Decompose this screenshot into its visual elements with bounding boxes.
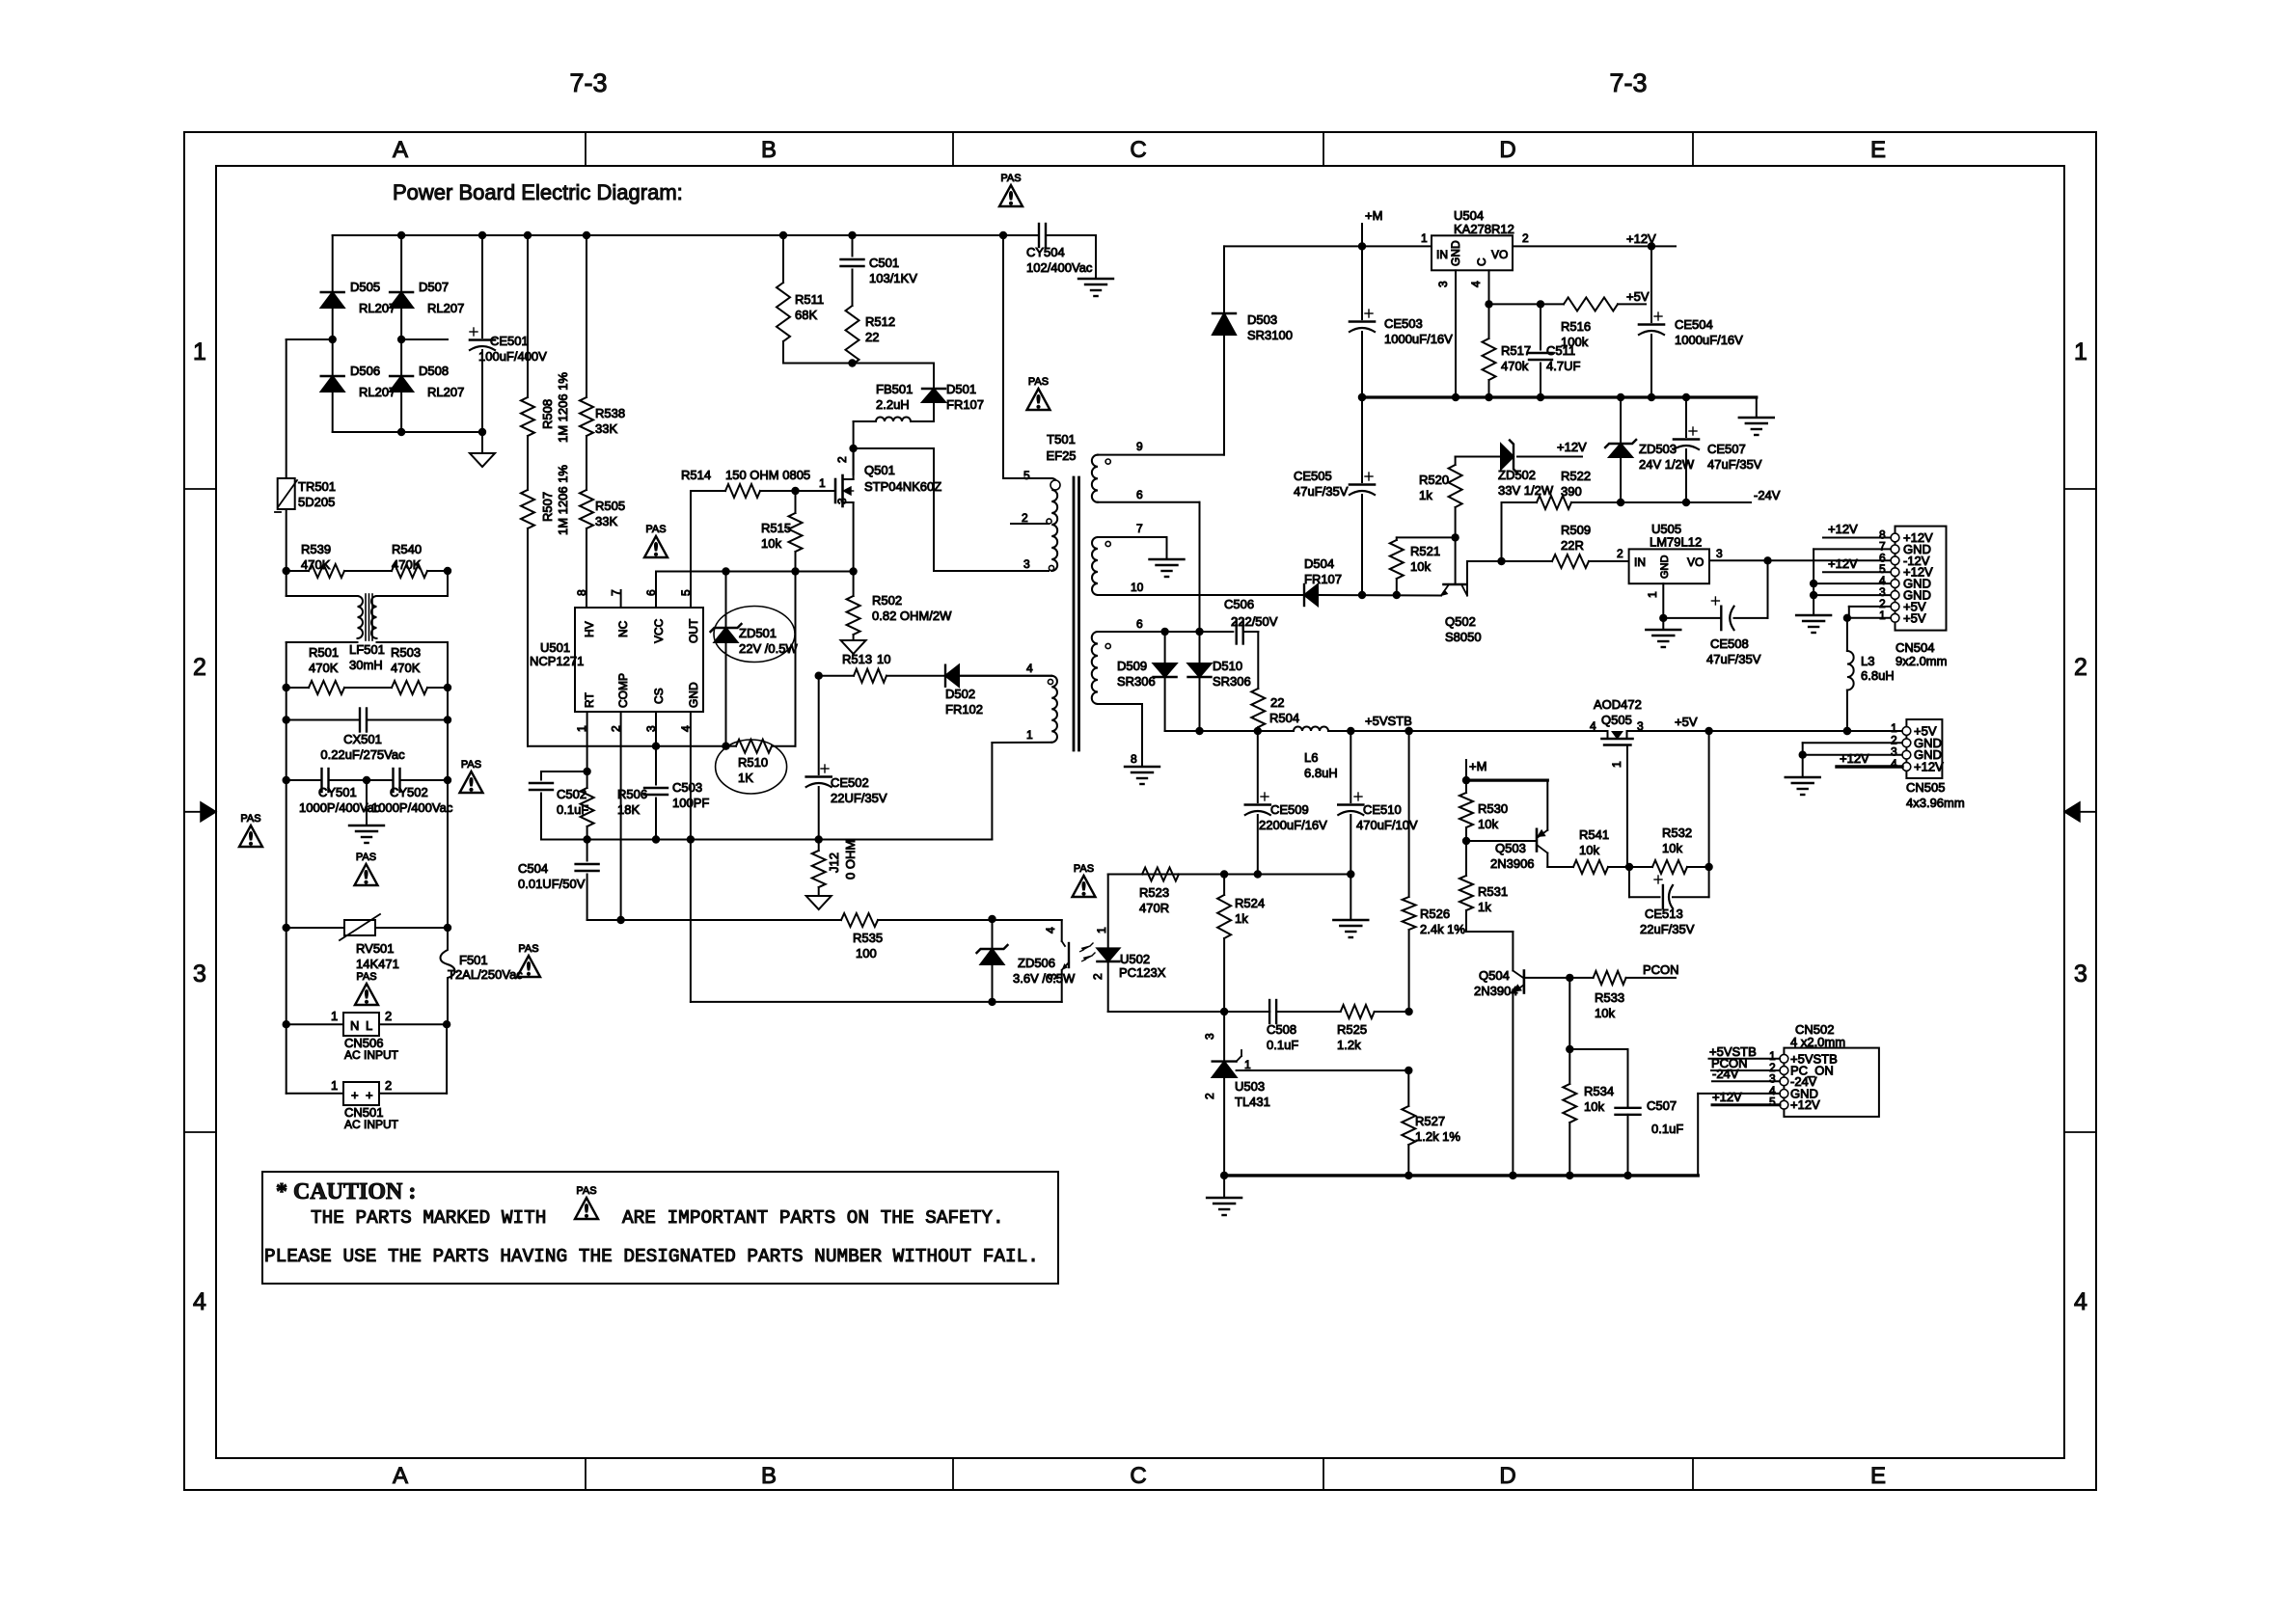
svg-text:3: 3 [1716,547,1723,560]
border frame inner [216,166,2064,1458]
PAS mark right of CX area [460,759,483,793]
transformer T501 secondary 6-8 [1092,617,1165,784]
svg-text:R524: R524 [1235,896,1265,910]
svg-text:0 OHM: 0 OHM [843,840,858,880]
svg-text:47uF/35V: 47uF/35V [1294,484,1349,499]
svg-text:47uF/35V: 47uF/35V [1706,652,1761,666]
svg-text:1: 1 [1421,231,1428,245]
resistor R532 [1629,731,1713,874]
svg-text:C: C [1475,257,1488,266]
regulator U504 KA278R12 [1421,208,1529,397]
svg-text:1: 1 [819,476,826,490]
label Q505 [1601,713,1632,727]
svg-text:SR3100: SR3100 [1247,328,1293,342]
svg-text:NCP1271: NCP1271 [530,654,584,668]
capacitor CE507 [1674,393,1762,506]
svg-text:100uF/400V: 100uF/400V [478,349,547,364]
svg-text:10k: 10k [761,536,781,551]
shunt reference U503 TL431 [1203,1012,1413,1176]
net +M at R530 [1466,759,1486,780]
svg-text:NC: NC [616,620,630,637]
svg-text:+12V: +12V [1557,440,1587,454]
svg-text:2: 2 [1522,231,1529,245]
svg-text:ARE IMPORTANT PARTS ON THE SAF: ARE IMPORTANT PARTS ON THE SAFETY. [622,1207,1004,1229]
svg-text:PAS: PAS [645,524,666,535]
svg-text:R522: R522 [1561,469,1591,483]
transistor Q504 2N3904 [1474,968,1524,1176]
svg-text:R520: R520 [1419,473,1449,487]
svg-text:4.7UF: 4.7UF [1546,359,1580,373]
svg-text:Power Board Electric Diagram:: Power Board Electric Diagram: [393,180,683,204]
svg-text:A: A [393,1463,408,1489]
resistor R502 [847,572,952,641]
svg-text:1M 1206 1%: 1M 1206 1% [556,465,570,535]
svg-text:OUT: OUT [687,618,700,643]
wire -24V net [1621,488,1781,502]
svg-text:103/1KV: 103/1KV [869,271,917,285]
svg-text:VCC: VCC [652,618,666,643]
svg-text:+12V: +12V [1828,522,1858,536]
resistor R534 [1563,1049,1614,1176]
wire bridge bottom bus [333,428,486,436]
svg-text:D507: D507 [419,280,449,294]
optocoupler U502 PC123X [1044,875,1166,1013]
svg-text:GND: GND [687,682,700,708]
connector CN502 [1769,1022,1879,1117]
svg-text:R521: R521 [1410,544,1440,558]
svg-text:R513: R513 [842,652,872,666]
svg-text:ZD502: ZD502 [1498,468,1536,482]
svg-text:3: 3 [1203,1033,1216,1040]
svg-text:D509: D509 [1117,659,1147,673]
svg-text:4: 4 [1026,662,1033,675]
capacitor CE509 [1245,731,1327,875]
svg-text:D: D [1499,1463,1515,1489]
svg-text:D508: D508 [419,364,449,378]
frame left arrow marker [184,802,216,822]
wire GND pin4 [690,712,692,840]
svg-text:R506: R506 [617,787,647,801]
diode D507 [390,235,464,339]
svg-text:6: 6 [1136,488,1143,501]
resistor R540 [392,542,451,578]
resistor R504 [1251,689,1299,731]
svg-text:D510: D510 [1213,659,1242,673]
svg-text:CN504: CN504 [1896,640,1934,655]
svg-text:4 x2.0mm: 4 x2.0mm [1790,1035,1845,1049]
connector CN506 [283,1009,451,1062]
resistor R521 [1390,537,1440,599]
svg-text:RL207: RL207 [427,385,464,399]
svg-text:PAS: PAS [240,813,260,825]
wire VCC-source rail [656,567,858,608]
svg-text:CE505: CE505 [1294,469,1332,483]
wire RT pin1 [583,712,590,775]
svg-text:1M 1206 1%: 1M 1206 1% [556,372,570,443]
svg-text:+5V: +5V [1675,715,1698,729]
wire R513 row [815,672,855,680]
resistor R526 [1403,731,1466,1012]
svg-text:R510: R510 [738,755,768,770]
svg-text:R532: R532 [1662,826,1692,840]
diode D510 [1188,632,1251,731]
svg-text:S8050: S8050 [1445,630,1482,644]
svg-text:TL431: TL431 [1235,1095,1270,1109]
svg-text:1: 1 [1095,927,1108,934]
svg-text:LF501: LF501 [349,642,385,657]
svg-text:7-3: 7-3 [1609,68,1647,97]
svg-text:U502: U502 [1120,952,1150,966]
svg-text:4: 4 [1044,927,1057,934]
svg-text:HV: HV [583,621,596,637]
wire +5V out [1627,715,1903,735]
svg-text:22V /0.5W: 22V /0.5W [739,641,798,656]
ground below U503 [1207,1176,1241,1215]
svg-text:7: 7 [610,589,623,596]
svg-text:B: B [761,1463,777,1489]
svg-text:+5V: +5V [1903,610,1926,625]
svg-text:2: 2 [1022,511,1028,525]
PAS mark mid [355,852,378,885]
svg-text:R526: R526 [1420,907,1450,921]
svg-text:PCON: PCON [1643,962,1679,977]
svg-text:R505: R505 [595,499,625,513]
svg-text:2: 2 [1091,973,1105,980]
svg-text:3: 3 [835,498,849,504]
svg-text:R507: R507 [540,492,555,522]
svg-text:1: 1 [1610,761,1623,768]
svg-text:4x3.96mm: 4x3.96mm [1906,796,1965,810]
svg-text:1: 1 [331,1078,338,1093]
capacitor CE504 [1639,246,1743,401]
svg-text:3: 3 [193,961,206,988]
svg-text:PAS: PAS [1028,376,1049,388]
svg-text:+12V: +12V [1828,556,1858,571]
svg-text:R534: R534 [1584,1084,1614,1098]
wire CN505 ground pins [1799,743,1903,759]
resistor R508 [521,235,570,490]
svg-text:+12V: +12V [1790,1097,1820,1112]
svg-text:1: 1 [2074,338,2087,365]
svg-text:22: 22 [865,330,879,344]
svg-text:D502: D502 [945,687,975,701]
svg-text:RL207: RL207 [427,301,464,315]
svg-text:SR306: SR306 [1117,674,1156,689]
svg-text:22R: 22R [1561,538,1584,553]
resistor R514 [681,468,835,498]
wire CN502 pin1 +5VSTB [1709,1044,1781,1059]
svg-text:R503: R503 [391,645,421,660]
svg-text:E: E [1870,1463,1886,1489]
svg-text:AOD472: AOD472 [1594,697,1642,712]
wire primary ground rail [541,835,992,843]
svg-text:9: 9 [1136,440,1143,453]
svg-text:B: B [761,137,777,163]
svg-text:ZD506: ZD506 [1018,956,1055,970]
svg-text:Q501: Q501 [864,463,895,477]
svg-text:2.2uH: 2.2uH [876,397,910,412]
svg-text:VO: VO [1491,248,1508,261]
transistor Q503 2N3906 [1462,829,1548,871]
capacitor C502 [530,771,588,840]
capacitor CY502 [363,720,453,816]
svg-text:47uF/35V: 47uF/35V [1707,457,1762,472]
fuse F501 [286,928,524,1024]
svg-text:D504: D504 [1304,556,1334,571]
svg-text:ZD503: ZD503 [1639,442,1677,456]
svg-text:R516: R516 [1561,319,1591,334]
wire +M ground rail [1362,393,1757,401]
svg-text:D503: D503 [1247,312,1277,327]
svg-text:3.6V /0.5W: 3.6V /0.5W [1013,971,1076,986]
resistor R511 [777,235,824,364]
transistor Q502 [1441,537,1482,644]
svg-text:CY501: CY501 [318,785,357,799]
svg-text:2: 2 [385,1009,392,1023]
svg-text:0.1uF: 0.1uF [1651,1122,1683,1136]
svg-text:A: A [393,137,408,163]
zener ZD501 [711,572,799,746]
svg-text:GND: GND [1449,240,1462,266]
svg-text:10k: 10k [1478,817,1498,831]
svg-text:C: C [1130,137,1146,163]
svg-text:+5V: +5V [1626,289,1650,304]
svg-text:+12V: +12V [1626,231,1656,246]
svg-text:AC INPUT: AC INPUT [344,1118,399,1131]
svg-text:R514: R514 [681,468,711,482]
svg-text:22UF/35V: 22UF/35V [831,791,887,805]
svg-text:10k: 10k [1595,1006,1615,1020]
svg-text:L6: L6 [1304,750,1318,765]
resistor R525 [1337,1005,1409,1052]
resistor R506 [581,771,647,840]
capacitor CE503 [1350,246,1453,401]
svg-text:6: 6 [1136,617,1143,631]
PAS mark near U501 [644,524,668,557]
wire Q504 base filter [1566,978,1627,1053]
frame zone labels [193,137,2087,1489]
inductor L3 [1843,618,1895,735]
svg-text:R502: R502 [872,593,902,608]
svg-text:5D205: 5D205 [298,495,335,509]
svg-text:CY504: CY504 [1026,245,1065,259]
PAS mark left [239,813,262,847]
svg-text:R509: R509 [1561,523,1591,537]
svg-text:150 OHM 0805: 150 OHM 0805 [725,468,810,482]
svg-text:R527: R527 [1415,1114,1445,1128]
net +M top [1362,208,1382,246]
svg-text:8: 8 [1131,752,1137,766]
wire bridge right AC node [397,336,448,343]
svg-text:L: L [366,1018,372,1033]
svg-text:CX501: CX501 [343,732,382,746]
PAS mark in caution box [575,1185,598,1219]
svg-text:FR107: FR107 [946,397,984,412]
wire snubber bottom [783,359,934,366]
svg-text:22uF/35V: 22uF/35V [1640,922,1695,936]
capacitor CY504 [1026,224,1113,296]
earth ground CN504 [1796,595,1831,633]
transformer T501 primary 4-1 [959,662,1057,840]
resistor R523 [1139,868,1179,916]
ground below CE510 [1333,875,1368,938]
wire +M input row [1224,242,1432,250]
svg-text:470k: 470k [1501,359,1529,373]
svg-text:R538: R538 [595,406,625,420]
svg-text:LM79L12: LM79L12 [1650,535,1702,550]
resistor R531 [1459,841,1513,971]
resistor R539 [283,542,393,578]
svg-text:1: 1 [331,1009,338,1023]
svg-text:TR501: TR501 [298,479,336,494]
svg-text:CN505: CN505 [1906,780,1945,795]
PAS mark near opto [1073,863,1096,897]
svg-text:33K: 33K [595,514,617,528]
wire CN502 pin2 PCON [1711,1056,1780,1070]
svg-text:0.1uF: 0.1uF [1267,1038,1298,1052]
svg-text:D506: D506 [350,364,380,378]
transformer T501 core [1046,432,1078,750]
svg-text:1000uF/16V: 1000uF/16V [1675,333,1743,347]
svg-text:10k: 10k [1579,843,1599,857]
capacitor C511 [1529,304,1580,397]
capacitor C504 [518,840,599,921]
wire secondary ground rail [1220,1172,1698,1179]
svg-text:2200uF/16V: 2200uF/16V [1259,818,1327,832]
connector CN505 [1891,719,1965,810]
svg-text:GND: GND [1659,555,1671,580]
wire top bus [333,231,1039,239]
svg-text:R504: R504 [1269,711,1299,725]
svg-text:0.01UF/50V: 0.01UF/50V [518,877,586,891]
PAS mark above RV501 [355,971,378,1005]
svg-text:C504: C504 [518,861,548,876]
svg-text:VO: VO [1687,555,1704,569]
ground below R502 [841,640,866,654]
svg-text:PAS: PAS [518,943,538,955]
wire CN505 +12V [1837,751,1902,767]
svg-text:STP04NK60Z: STP04NK60Z [864,479,941,494]
svg-text:PAS: PAS [1074,863,1094,875]
svg-text:1000P/400Vac: 1000P/400Vac [299,800,381,815]
svg-text:1.2k 1%: 1.2k 1% [1415,1129,1460,1144]
capacitor C506 [1224,597,1278,689]
wire COMP row [587,712,841,924]
wire drain node [849,421,934,571]
capacitor CX501 [283,688,452,762]
svg-text:0.22uF/275Vac: 0.22uF/275Vac [320,747,405,762]
svg-text:CE504: CE504 [1675,317,1713,332]
svg-text:U501: U501 [540,640,570,655]
wire C508 row [1108,1008,1413,1015]
svg-text:E: E [1870,137,1886,163]
op-amp U501 NCP1271 [530,491,703,732]
wire +M to Q503 emitter [1462,776,1548,830]
svg-text:4: 4 [1891,757,1897,771]
svg-text:T2AL/250Vac: T2AL/250Vac [448,967,523,982]
svg-text:2: 2 [1203,1093,1216,1099]
svg-text:470R: 470R [1139,901,1169,915]
capacitor C503 [644,746,709,840]
svg-text:8: 8 [575,589,588,596]
svg-text:222/50V: 222/50V [1231,614,1278,629]
svg-text:1k: 1k [1419,488,1432,502]
wire CN504 +5V pins [1843,607,1891,622]
choke LF501 [286,571,448,672]
svg-text:CE503: CE503 [1384,316,1423,331]
capacitor CE508 [1659,583,1767,666]
svg-text:4: 4 [2074,1288,2087,1315]
inductor FB501 [854,382,934,421]
zener ZD506 [977,915,1077,1006]
svg-text:N: N [350,1018,359,1033]
svg-text:2: 2 [385,1078,392,1093]
resistor R503 [391,642,451,694]
svg-text:R517: R517 [1501,343,1531,358]
svg-text:L3: L3 [1861,654,1874,668]
svg-text:1: 1 [1879,609,1886,622]
earth ground at +M rail end [1739,397,1774,435]
diode D506 [321,339,396,432]
svg-text:C511: C511 [1546,343,1575,358]
wire VO to -12V [1709,556,1891,618]
resistor R541 [1547,827,1629,874]
resistor R507 [521,465,570,746]
svg-text:COMP: COMP [616,673,630,708]
page number 7-3 right [1609,68,1647,97]
wire +5VSTB rail [1165,727,1294,735]
svg-text:1: 1 [1244,1058,1251,1071]
svg-text:1000uF/16V: 1000uF/16V [1384,332,1453,346]
svg-text:CE508: CE508 [1710,636,1749,651]
svg-text:* CAUTION :: * CAUTION : [276,1179,416,1204]
capacitor CE502 [806,676,887,840]
svg-text:U504: U504 [1454,208,1484,223]
resistor R533 [1524,962,1679,1020]
svg-text:1: 1 [193,338,206,365]
svg-text:3: 3 [1023,557,1030,571]
svg-text:SR306: SR306 [1213,674,1251,689]
transformer T501 secondary 7-10 [1092,522,1304,595]
svg-text:10k: 10k [1662,841,1682,855]
svg-text:4: 4 [193,1288,206,1315]
svg-text:ZD501: ZD501 [739,626,777,640]
svg-text:C503: C503 [672,780,702,795]
svg-text:R540: R540 [392,542,422,556]
svg-text:470K: 470K [301,557,331,572]
wire CE505 column [1361,397,1363,482]
resistor R538 [580,235,625,490]
ground below CE501 [470,432,495,467]
svg-text:R511: R511 [795,292,824,307]
capacitor CE505 [1294,393,1375,599]
zener ZD502 [1456,441,1582,499]
svg-text:C507: C507 [1647,1098,1677,1113]
svg-text:5: 5 [1769,1096,1776,1109]
svg-text:THE PARTS MARKED WITH: THE PARTS MARKED WITH [311,1207,546,1229]
resistor R513 [842,652,945,683]
svg-text:10: 10 [877,652,890,666]
wire feedback row [1108,870,1355,878]
svg-text:PAS: PAS [356,852,376,863]
svg-text:2: 2 [1617,547,1623,560]
page number 7-3 left [569,68,607,97]
svg-text:PAS: PAS [1000,173,1021,184]
svg-text:PC123X: PC123X [1119,965,1166,980]
wire -24V raw row [1318,561,1467,596]
svg-text:J12: J12 [827,853,841,873]
resistor R527 [1402,1070,1460,1176]
